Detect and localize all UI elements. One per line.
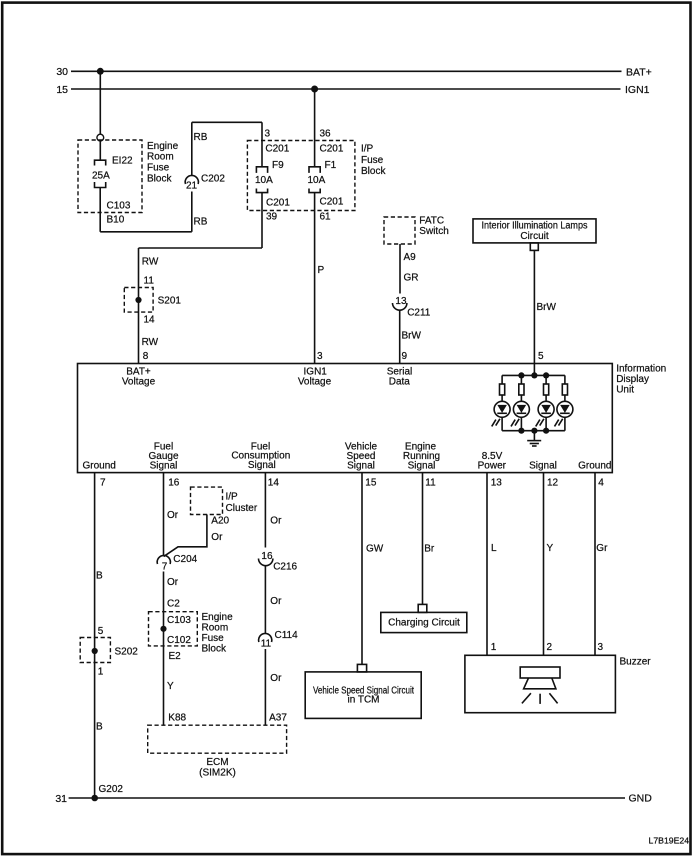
svg-text:21: 21: [186, 181, 198, 192]
svg-text:31: 31: [55, 793, 67, 805]
svg-text:61: 61: [320, 212, 332, 223]
svg-text:C204: C204: [173, 554, 197, 565]
svg-text:B: B: [96, 571, 103, 582]
svg-text:C202: C202: [201, 174, 225, 185]
svg-text:K88: K88: [168, 713, 186, 724]
svg-text:Switch: Switch: [419, 226, 448, 237]
svg-text:36: 36: [320, 129, 332, 140]
svg-text:Block: Block: [202, 644, 227, 655]
svg-text:Data: Data: [389, 376, 411, 387]
svg-text:F1: F1: [325, 160, 337, 171]
svg-text:13: 13: [395, 296, 407, 307]
svg-text:A20: A20: [211, 516, 229, 527]
svg-text:9: 9: [402, 351, 408, 362]
svg-text:RB: RB: [194, 217, 208, 228]
svg-text:Signal: Signal: [529, 460, 557, 471]
svg-text:A37: A37: [269, 713, 287, 724]
svg-text:Display: Display: [616, 374, 649, 385]
svg-text:C103: C103: [107, 201, 131, 212]
svg-text:Or: Or: [167, 577, 179, 588]
svg-text:Voltage: Voltage: [122, 376, 156, 387]
svg-text:39: 39: [266, 212, 278, 223]
svg-text:BrW: BrW: [537, 302, 557, 313]
svg-text:S201: S201: [158, 295, 182, 306]
svg-text:3: 3: [265, 129, 271, 140]
svg-text:3: 3: [598, 642, 604, 653]
svg-text:7: 7: [100, 478, 106, 489]
svg-text:Engine: Engine: [147, 141, 179, 152]
svg-text:Buzzer: Buzzer: [620, 657, 652, 668]
svg-text:Circuit: Circuit: [520, 231, 549, 242]
svg-text:Fuse: Fuse: [147, 163, 170, 174]
svg-text:30: 30: [56, 66, 68, 78]
svg-text:Or: Or: [211, 532, 223, 543]
svg-text:Y: Y: [167, 681, 174, 692]
svg-text:GW: GW: [366, 544, 384, 555]
svg-text:S202: S202: [115, 647, 139, 658]
svg-text:Signal: Signal: [408, 460, 436, 471]
svg-text:Power: Power: [478, 460, 507, 471]
svg-text:8: 8: [143, 351, 149, 362]
svg-text:F9: F9: [272, 160, 284, 171]
svg-text:Or: Or: [270, 596, 282, 607]
svg-text:Block: Block: [361, 166, 386, 177]
svg-text:5: 5: [98, 626, 104, 637]
svg-text:3: 3: [317, 351, 323, 362]
svg-text:Cluster: Cluster: [226, 503, 258, 514]
svg-text:I/P: I/P: [226, 492, 239, 503]
svg-text:C103: C103: [167, 615, 191, 626]
svg-text:12: 12: [547, 478, 559, 489]
svg-text:Room: Room: [147, 152, 174, 163]
svg-text:16: 16: [168, 478, 180, 489]
svg-text:10A: 10A: [255, 175, 273, 186]
svg-text:Signal: Signal: [150, 460, 178, 471]
svg-text:C102: C102: [167, 635, 191, 646]
svg-text:I/P: I/P: [361, 144, 374, 155]
svg-text:GR: GR: [404, 273, 419, 284]
svg-text:C211: C211: [407, 308, 431, 319]
svg-text:BrW: BrW: [402, 331, 422, 342]
svg-text:in TCM: in TCM: [347, 695, 379, 706]
svg-text:Interior Illumination Lamps: Interior Illumination Lamps: [482, 221, 588, 232]
svg-text:Charging Circuit: Charging Circuit: [388, 618, 460, 629]
svg-text:Information: Information: [616, 364, 666, 375]
svg-text:Ground: Ground: [578, 460, 611, 471]
svg-text:11: 11: [144, 275, 155, 286]
svg-text:P: P: [318, 265, 325, 276]
svg-text:E2: E2: [169, 651, 182, 662]
svg-text:1: 1: [491, 642, 497, 653]
svg-text:Y: Y: [547, 543, 554, 554]
svg-text:Room: Room: [202, 623, 229, 634]
svg-text:10A: 10A: [308, 175, 326, 186]
svg-text:15: 15: [365, 478, 377, 489]
svg-text:Engine: Engine: [202, 612, 234, 623]
svg-text:(SIM2K): (SIM2K): [199, 768, 236, 779]
svg-text:7: 7: [162, 562, 168, 573]
svg-text:C201: C201: [320, 144, 344, 155]
svg-text:2: 2: [547, 642, 553, 653]
svg-text:11: 11: [425, 478, 436, 489]
svg-text:BAT+: BAT+: [626, 66, 652, 78]
svg-text:Voltage: Voltage: [298, 376, 332, 387]
svg-text:14: 14: [268, 478, 280, 489]
svg-text:Or: Or: [270, 516, 282, 527]
svg-text:16: 16: [261, 551, 273, 562]
svg-text:15: 15: [56, 84, 68, 96]
svg-text:RW: RW: [142, 257, 159, 268]
svg-text:4: 4: [598, 478, 604, 489]
svg-text:A9: A9: [404, 252, 417, 263]
svg-text:C216: C216: [273, 562, 297, 573]
svg-text:C201: C201: [320, 197, 344, 208]
svg-text:C201: C201: [266, 198, 290, 209]
svg-text:G202: G202: [99, 784, 124, 795]
svg-text:RW: RW: [142, 337, 159, 348]
svg-text:C2: C2: [167, 599, 180, 610]
svg-text:ECM: ECM: [206, 757, 228, 768]
svg-text:Unit: Unit: [616, 385, 634, 396]
svg-text:B: B: [96, 722, 103, 733]
svg-text:L7B19E24: L7B19E24: [649, 836, 690, 846]
svg-text:Ground: Ground: [83, 460, 116, 471]
svg-text:EI22: EI22: [112, 156, 133, 167]
svg-text:Or: Or: [167, 510, 179, 521]
svg-text:Signal: Signal: [347, 460, 375, 471]
svg-text:Br: Br: [424, 544, 435, 555]
svg-text:GND: GND: [629, 793, 653, 805]
svg-text:IGN1: IGN1: [625, 84, 650, 96]
svg-text:1: 1: [98, 667, 104, 678]
svg-text:C114: C114: [275, 630, 299, 641]
svg-text:14: 14: [144, 315, 156, 326]
svg-text:25A: 25A: [92, 171, 110, 182]
svg-text:Gr: Gr: [596, 543, 608, 554]
svg-text:5: 5: [538, 351, 544, 362]
svg-text:Signal: Signal: [248, 460, 276, 471]
svg-text:13: 13: [491, 478, 503, 489]
svg-text:Fuse: Fuse: [202, 633, 225, 644]
svg-text:Fuse: Fuse: [361, 155, 384, 166]
svg-text:RB: RB: [194, 132, 208, 143]
svg-text:Block: Block: [147, 174, 172, 185]
svg-text:B10: B10: [107, 215, 125, 226]
svg-text:Or: Or: [270, 673, 282, 684]
svg-text:C201: C201: [265, 144, 289, 155]
svg-text:11: 11: [261, 639, 272, 650]
svg-text:L: L: [491, 543, 497, 554]
